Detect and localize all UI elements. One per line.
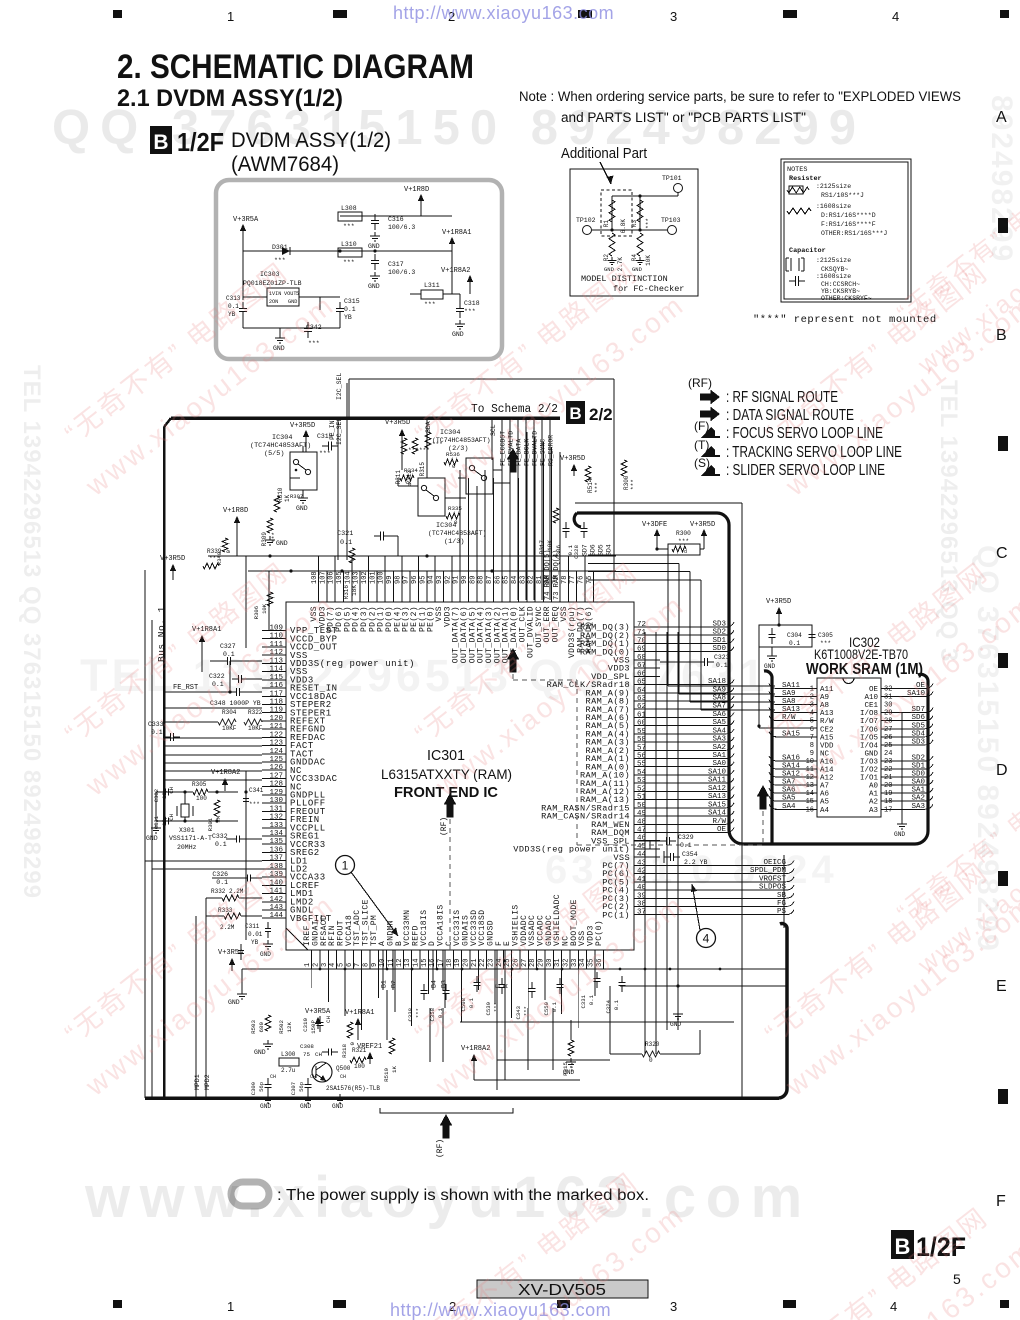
svg-text:V+3R5D: V+3R5D	[766, 598, 791, 606]
svg-text:***: ***	[415, 1008, 422, 1018]
wire xtal top	[156, 791, 193, 793]
notes resistor 1608 symbol	[787, 208, 811, 214]
svg-text:13: 13	[404, 959, 412, 967]
svg-text:***: ***	[319, 450, 331, 457]
svg-text:SD0: SD0	[911, 771, 925, 779]
svg-text:0.1: 0.1	[151, 729, 163, 736]
svg-text:L6315ATXXTY (RAM): L6315ATXXTY (RAM)	[381, 766, 512, 782]
svg-text:***: ***	[308, 340, 320, 347]
svg-text:127: 127	[269, 772, 283, 780]
svg-text:YB: YB	[344, 314, 352, 321]
svg-text:121: 121	[269, 723, 283, 731]
svg-text:SA7: SA7	[712, 703, 726, 711]
svg-text:100: 100	[196, 795, 207, 802]
svg-text:CKSQYB~: CKSQYB~	[821, 266, 848, 273]
svg-text:4: 4	[703, 932, 710, 946]
svg-text:C310: C310	[302, 1017, 309, 1031]
capacitor C318	[459, 302, 461, 309]
svg-text:107: 107	[319, 571, 327, 584]
svg-text:118: 118	[269, 698, 283, 706]
svg-text:R306: R306	[253, 606, 260, 619]
svg-text:117: 117	[269, 690, 283, 698]
svg-text:100: 100	[354, 1063, 365, 1070]
svg-text:GND: GND	[764, 663, 775, 670]
outer box left edge	[163, 427, 166, 1098]
svg-text:CH: CH	[340, 1074, 346, 1080]
svg-text:23: 23	[884, 758, 892, 766]
page margin markers top	[113, 10, 122, 18]
ground	[570, 1058, 572, 1062]
svg-text:C316: C316	[388, 216, 404, 223]
svg-text:101: 101	[369, 571, 377, 584]
svg-text:: SLIDER SERVO LOOP LINE: : SLIDER SERVO LOOP LINE	[726, 462, 885, 479]
svg-text:SA12: SA12	[782, 771, 800, 779]
svg-text:103: 103	[353, 571, 361, 584]
notes capacitor 2125 symbol	[785, 258, 787, 271]
ground bottom left	[241, 969, 243, 990]
svg-text:C348 1000P YB: C348 1000P YB	[210, 700, 261, 707]
svg-text:0.1: 0.1	[215, 841, 227, 848]
svg-text:A12: A12	[820, 775, 834, 783]
svg-text:SA15: SA15	[782, 730, 801, 738]
svg-text:SA6: SA6	[782, 787, 796, 795]
svg-text:73 RAM_DQ(4): 73 RAM_DQ(4)	[553, 550, 561, 600]
svg-text:C354: C354	[682, 851, 698, 858]
svg-text:A16: A16	[820, 758, 834, 766]
svg-text:SA14: SA14	[782, 763, 801, 771]
svg-text:F: F	[996, 1193, 1006, 1210]
svg-text:B: B	[895, 1234, 911, 1259]
IC301 top pins 108-75	[310, 432, 594, 663]
svg-text:WORK SRAM (1M): WORK SRAM (1M)	[806, 661, 923, 678]
svg-text:0.1: 0.1	[468, 997, 475, 1008]
wire SDA	[426, 418, 428, 478]
svg-text:0: 0	[452, 463, 456, 470]
svg-text:R300: R300	[676, 530, 691, 537]
power supply marked box outline	[216, 180, 502, 359]
svg-text:116: 116	[269, 682, 283, 690]
svg-text:SD5: SD5	[598, 544, 605, 556]
svg-text:29: 29	[537, 959, 545, 967]
svg-text:140: 140	[269, 879, 283, 887]
svg-text:GND: GND	[273, 345, 285, 352]
svg-text:GND: GND	[632, 266, 643, 273]
svg-text:123: 123	[269, 740, 283, 748]
svg-text:0.1: 0.1	[344, 306, 356, 313]
svg-text:138: 138	[269, 863, 283, 871]
svg-text:I/O6: I/O6	[860, 726, 879, 734]
resistor R2	[609, 233, 615, 256]
svg-text:19: 19	[454, 959, 462, 967]
svg-text:94: 94	[428, 576, 436, 584]
IC304 (1/3) analog switch	[418, 478, 445, 516]
svg-text:GND: GND	[260, 951, 271, 958]
svg-text:2: 2	[449, 1299, 456, 1314]
svg-text:28: 28	[884, 718, 892, 726]
svg-text:32: 32	[562, 959, 570, 967]
svg-text:1/2F: 1/2F	[177, 127, 224, 157]
svg-text:CH: CH	[325, 1015, 332, 1022]
svg-text:R332 2.2M: R332 2.2M	[211, 888, 244, 895]
callout 1	[336, 856, 355, 875]
svg-text:V+1R8A1: V+1R8A1	[192, 626, 221, 634]
svg-text:3: 3	[321, 963, 329, 967]
svg-text:FE_DATA: FE_DATA	[516, 439, 523, 466]
svg-text:76: 76	[578, 576, 586, 584]
svg-text:136: 136	[269, 846, 283, 854]
svg-text:V+3R5D: V+3R5D	[560, 455, 585, 463]
svg-text:C323: C323	[714, 654, 730, 661]
svg-text:A14: A14	[820, 767, 834, 775]
wire bottom horizontals	[460, 1021, 734, 1023]
svg-text:SA7: SA7	[782, 779, 796, 787]
svg-text:SA6: SA6	[712, 711, 726, 719]
svg-text:R334: R334	[404, 467, 418, 474]
svg-text:GND: GND	[604, 266, 615, 273]
wire xtal bottom	[156, 820, 238, 822]
svg-text:***: ***	[249, 801, 260, 808]
IC301 right pins 72-37	[513, 621, 794, 921]
svg-text:FE_RST: FE_RST	[173, 684, 198, 692]
svg-text:SD7: SD7	[911, 706, 925, 714]
svg-text:I/O7: I/O7	[860, 718, 878, 726]
resistor R519	[389, 1038, 395, 1054]
resistor R301	[214, 800, 220, 816]
svg-text:98: 98	[394, 576, 402, 584]
svg-text:R301: R301	[207, 817, 214, 831]
svg-text:87: 87	[486, 576, 494, 584]
power marked box around front-end	[574, 513, 928, 844]
svg-text:(1/3): (1/3)	[444, 538, 464, 546]
svg-text:V+1R8A1: V+1R8A1	[442, 229, 471, 237]
svg-text:24: 24	[884, 750, 892, 758]
bus verticals mid	[644, 632, 646, 1054]
ground row bottom	[267, 1094, 269, 1098]
svg-text:85: 85	[503, 576, 511, 584]
svg-text:R/W: R/W	[712, 818, 726, 826]
wire mpd verticals	[205, 898, 207, 1098]
svg-text:R320: R320	[645, 1041, 660, 1048]
svg-text:R322: R322	[248, 709, 263, 716]
resistor R306	[267, 592, 273, 606]
svg-text:22: 22	[884, 766, 892, 774]
svg-text:102: 102	[361, 571, 369, 584]
svg-text:SPDL_PDM: SPDL_PDM	[750, 867, 787, 875]
svg-text:RS1/10S***J: RS1/10S***J	[821, 192, 864, 199]
svg-text:C311: C311	[245, 923, 260, 930]
svg-text:A8: A8	[820, 702, 829, 710]
svg-text:1: 1	[227, 1299, 234, 1314]
svg-text:0.01: 0.01	[248, 931, 263, 938]
svg-text:30: 30	[884, 702, 892, 710]
wire horizontals upper right	[575, 502, 742, 504]
sheet ref B 2/2	[566, 401, 585, 424]
svg-text:OE: OE	[916, 682, 926, 690]
capacitor C313	[242, 302, 244, 309]
svg-text:93: 93	[436, 576, 444, 584]
RF route arrow up	[507, 448, 519, 473]
capacitor C304 box	[759, 625, 812, 647]
svg-text:96: 96	[411, 576, 419, 584]
svg-text:: DATA SIGNAL ROUTE: : DATA SIGNAL ROUTE	[726, 407, 854, 424]
resistor R312	[412, 438, 418, 454]
svg-text:V+1R8A1: V+1R8A1	[345, 1009, 374, 1017]
svg-text:VCCA18IS: VCCA18IS	[436, 904, 445, 946]
svg-text:1: 1	[304, 963, 312, 967]
svg-text:SA5: SA5	[782, 795, 796, 803]
svg-text:2SA1576(R5)-TLB: 2SA1576(R5)-TLB	[326, 1085, 380, 1092]
resistor R315b	[425, 432, 431, 448]
svg-text:(AWM7684): (AWM7684)	[231, 153, 339, 176]
dashed area	[601, 190, 632, 236]
svg-text:OEICG: OEICG	[763, 859, 786, 867]
svg-text:SA4: SA4	[712, 727, 726, 735]
wire long bus upper	[208, 555, 616, 557]
svg-text:3: 3	[670, 9, 677, 24]
svg-text:***: ***	[594, 482, 601, 493]
svg-text:YB: YB	[228, 311, 236, 318]
svg-text:V+3R5A: V+3R5A	[218, 949, 244, 957]
svg-text:CH: CH	[270, 1074, 276, 1080]
svg-text:22: 22	[479, 959, 487, 967]
svg-text:V+1R8D: V+1R8D	[223, 507, 248, 515]
svg-text:A9: A9	[820, 694, 829, 702]
svg-text:V+1R8A2: V+1R8A2	[211, 769, 240, 777]
bus horizontal bottom right	[620, 985, 787, 987]
svg-text:6: 6	[810, 726, 814, 734]
svg-text:MPD1: MPD1	[194, 1074, 201, 1090]
svg-text:C341: C341	[249, 787, 264, 794]
wire sd routing to sram	[588, 554, 668, 556]
svg-text:SA9: SA9	[782, 690, 796, 698]
svg-text:SA3: SA3	[712, 736, 726, 744]
svg-text:OTHER:RS1/16S***J: OTHER:RS1/16S***J	[821, 230, 887, 237]
svg-text:1/2F: 1/2F	[916, 1232, 966, 1262]
capacitor C317	[374, 254, 376, 261]
resistor R311	[401, 438, 407, 454]
svg-text:NC: NC	[820, 750, 830, 758]
svg-text:SA4: SA4	[782, 803, 796, 811]
svg-text:C331: C331	[580, 994, 587, 1008]
bottom pin stub labels	[382, 950, 384, 990]
svg-text:SD6: SD6	[590, 544, 597, 556]
svg-text:86: 86	[494, 576, 502, 584]
svg-text:6: 6	[346, 963, 354, 967]
ground	[374, 272, 376, 276]
thick bus line to schema 2/2	[171, 416, 560, 420]
svg-text:0.1: 0.1	[228, 303, 239, 310]
leader arrow	[600, 162, 611, 184]
svg-text:A15: A15	[820, 734, 834, 742]
capacitor C342	[307, 322, 309, 329]
svg-text:4: 4	[890, 1299, 897, 1314]
svg-text:0.1: 0.1	[212, 681, 224, 688]
svg-text:4: 4	[892, 9, 899, 24]
svg-text:32: 32	[884, 686, 892, 694]
svg-text:0.1: 0.1	[340, 539, 352, 547]
svg-text:SA1: SA1	[712, 752, 726, 760]
svg-text:18: 18	[446, 959, 454, 967]
svg-text:95: 95	[419, 576, 427, 584]
resistor R316	[349, 548, 355, 563]
svg-text:A5: A5	[820, 799, 830, 807]
svg-text:IC304: IC304	[440, 429, 460, 437]
svg-text:SA0: SA0	[911, 779, 925, 787]
svg-text:GND: GND	[228, 999, 240, 1006]
transistor Q500	[312, 1062, 332, 1082]
svg-text:C329: C329	[678, 834, 694, 841]
svg-text:SA14: SA14	[708, 810, 727, 818]
power marked box left edge of sram	[764, 671, 772, 844]
svg-text:(5/5): (5/5)	[264, 450, 284, 458]
resistor R300b	[621, 460, 627, 476]
svg-text:128: 128	[269, 781, 283, 789]
svg-text:99: 99	[386, 576, 394, 584]
svg-text:IC301: IC301	[427, 748, 465, 764]
svg-text:113: 113	[269, 657, 283, 665]
resistor R340	[222, 538, 228, 552]
wire	[420, 206, 422, 216]
callout 4	[697, 929, 716, 948]
svg-text:DVDM ASSY(1/2): DVDM ASSY(1/2)	[231, 129, 391, 152]
svg-text:0: 0	[649, 1057, 653, 1064]
svg-text:GND: GND	[332, 1103, 343, 1110]
svg-text:ON: ON	[272, 299, 278, 305]
svg-text:6.8K: 6.8K	[620, 219, 627, 234]
svg-text:SA2: SA2	[911, 795, 925, 803]
bottom vertical drops	[311, 969, 313, 988]
svg-text:11: 11	[806, 766, 814, 774]
svg-text:PS: PS	[777, 908, 787, 916]
svg-text:75: 75	[303, 1051, 310, 1058]
svg-text:B: B	[996, 327, 1007, 344]
svg-text:K6T1008V2E-TB70: K6T1008V2E-TB70	[814, 647, 908, 662]
svg-text:105: 105	[336, 571, 344, 584]
svg-text:***: ***	[523, 1006, 530, 1016]
svg-text:R318: R318	[341, 1043, 348, 1057]
svg-text:12K: 12K	[286, 1021, 293, 1032]
bus wires FE signals	[501, 418, 503, 600]
svg-text:V+3R5D: V+3R5D	[690, 521, 715, 529]
svg-text:SA10: SA10	[907, 690, 926, 698]
svg-text:1: 1	[227, 9, 234, 24]
svg-text:SD4: SD4	[606, 544, 613, 556]
svg-text:125: 125	[269, 756, 283, 764]
svg-text:10KF: 10KF	[222, 725, 237, 732]
svg-text:C332: C332	[212, 833, 228, 840]
svg-text:RAM_DQ(6): RAM_DQ(6)	[585, 606, 594, 653]
svg-text:17: 17	[437, 959, 445, 967]
svg-text:119: 119	[269, 707, 283, 715]
svg-text:56p: 56p	[258, 1082, 265, 1092]
svg-text:MODEL DISTINCTION: MODEL DISTINCTION	[581, 274, 668, 284]
svg-text:4: 4	[810, 710, 814, 718]
svg-text:C508: C508	[460, 998, 467, 1011]
svg-text:111: 111	[269, 641, 283, 649]
svg-text:27: 27	[521, 959, 529, 967]
svg-text:75: 75	[586, 576, 594, 584]
capacitor C329	[660, 840, 667, 842]
ground	[302, 494, 304, 498]
svg-text:0.1: 0.1	[613, 999, 620, 1010]
svg-text:27: 27	[884, 726, 892, 734]
ground	[374, 232, 376, 236]
svg-text:110: 110	[269, 633, 283, 641]
svg-text:C327: C327	[220, 643, 236, 650]
left wires rows	[164, 737, 262, 739]
svg-text:0.1: 0.1	[551, 1001, 558, 1012]
svg-text:82: 82	[528, 576, 536, 584]
svg-text:Q500: Q500	[336, 1065, 351, 1072]
svg-text:CH: CH	[310, 1074, 316, 1080]
capacitor C354	[664, 856, 671, 858]
svg-text:SB: SB	[777, 892, 787, 900]
svg-text:R3: R3	[631, 220, 638, 228]
svg-text:26: 26	[884, 734, 892, 742]
svg-text::2125size: :2125size	[816, 183, 851, 190]
ground xtal	[155, 824, 157, 828]
svg-text:GND: GND	[563, 1069, 574, 1076]
svg-text:L310: L310	[341, 241, 357, 248]
svg-text:and PARTS LIST" or "PCB PARTS: and PARTS LIST" or "PCB PARTS LIST"	[561, 110, 806, 126]
svg-text:I/O2: I/O2	[860, 767, 878, 775]
svg-text:GND: GND	[452, 331, 464, 338]
svg-text:A6: A6	[820, 791, 830, 799]
svg-text:OE: OE	[717, 826, 727, 834]
resistor R318	[347, 1022, 353, 1038]
resistor R1	[609, 200, 615, 222]
svg-text:***: ***	[630, 479, 637, 490]
svg-text:131: 131	[269, 805, 283, 813]
svg-text:3: 3	[810, 702, 814, 710]
svg-text:C308: C308	[300, 1043, 314, 1050]
svg-text:12: 12	[806, 774, 814, 782]
svg-text:91: 91	[453, 576, 461, 584]
svg-text:137: 137	[269, 855, 283, 863]
legend power supply marked box	[231, 1182, 269, 1206]
model box XV-DV505	[477, 1280, 648, 1298]
svg-text:97: 97	[403, 576, 411, 584]
svg-text:0.1: 0.1	[223, 651, 235, 658]
notes capacitor 1608 symbol	[789, 280, 796, 282]
svg-text:XV-DV505: XV-DV505	[518, 1282, 606, 1299]
svg-text:C317: C317	[388, 261, 404, 268]
svg-text:114: 114	[269, 666, 283, 674]
wire stubs down	[245, 556, 247, 648]
svg-text:GND: GND	[368, 243, 380, 250]
svg-text:V+1R8D: V+1R8D	[404, 186, 429, 194]
svg-text:PC(1): PC(1)	[602, 910, 630, 920]
svg-text:72: 72	[637, 621, 646, 629]
svg-text:8: 8	[363, 963, 371, 967]
svg-text:"***" represent not mounted: "***" represent not mounted	[753, 314, 937, 326]
svg-text:18: 18	[884, 798, 892, 806]
resistor R310	[274, 496, 280, 512]
sheet label B 1/2F	[150, 126, 172, 154]
svg-text:(T): (T)	[694, 438, 709, 452]
wire C304 to CE2	[758, 647, 760, 728]
svg-text:134: 134	[269, 830, 283, 838]
svg-text:1K: 1K	[284, 494, 291, 502]
svg-text:SD2: SD2	[911, 754, 925, 762]
svg-text:***: ***	[274, 257, 286, 264]
svg-text:VREF21: VREF21	[357, 1043, 382, 1051]
svg-text:GND: GND	[254, 1049, 266, 1056]
svg-text:19: 19	[884, 790, 892, 798]
ground	[771, 647, 773, 652]
svg-text:115: 115	[269, 674, 283, 682]
wire	[592, 229, 667, 231]
